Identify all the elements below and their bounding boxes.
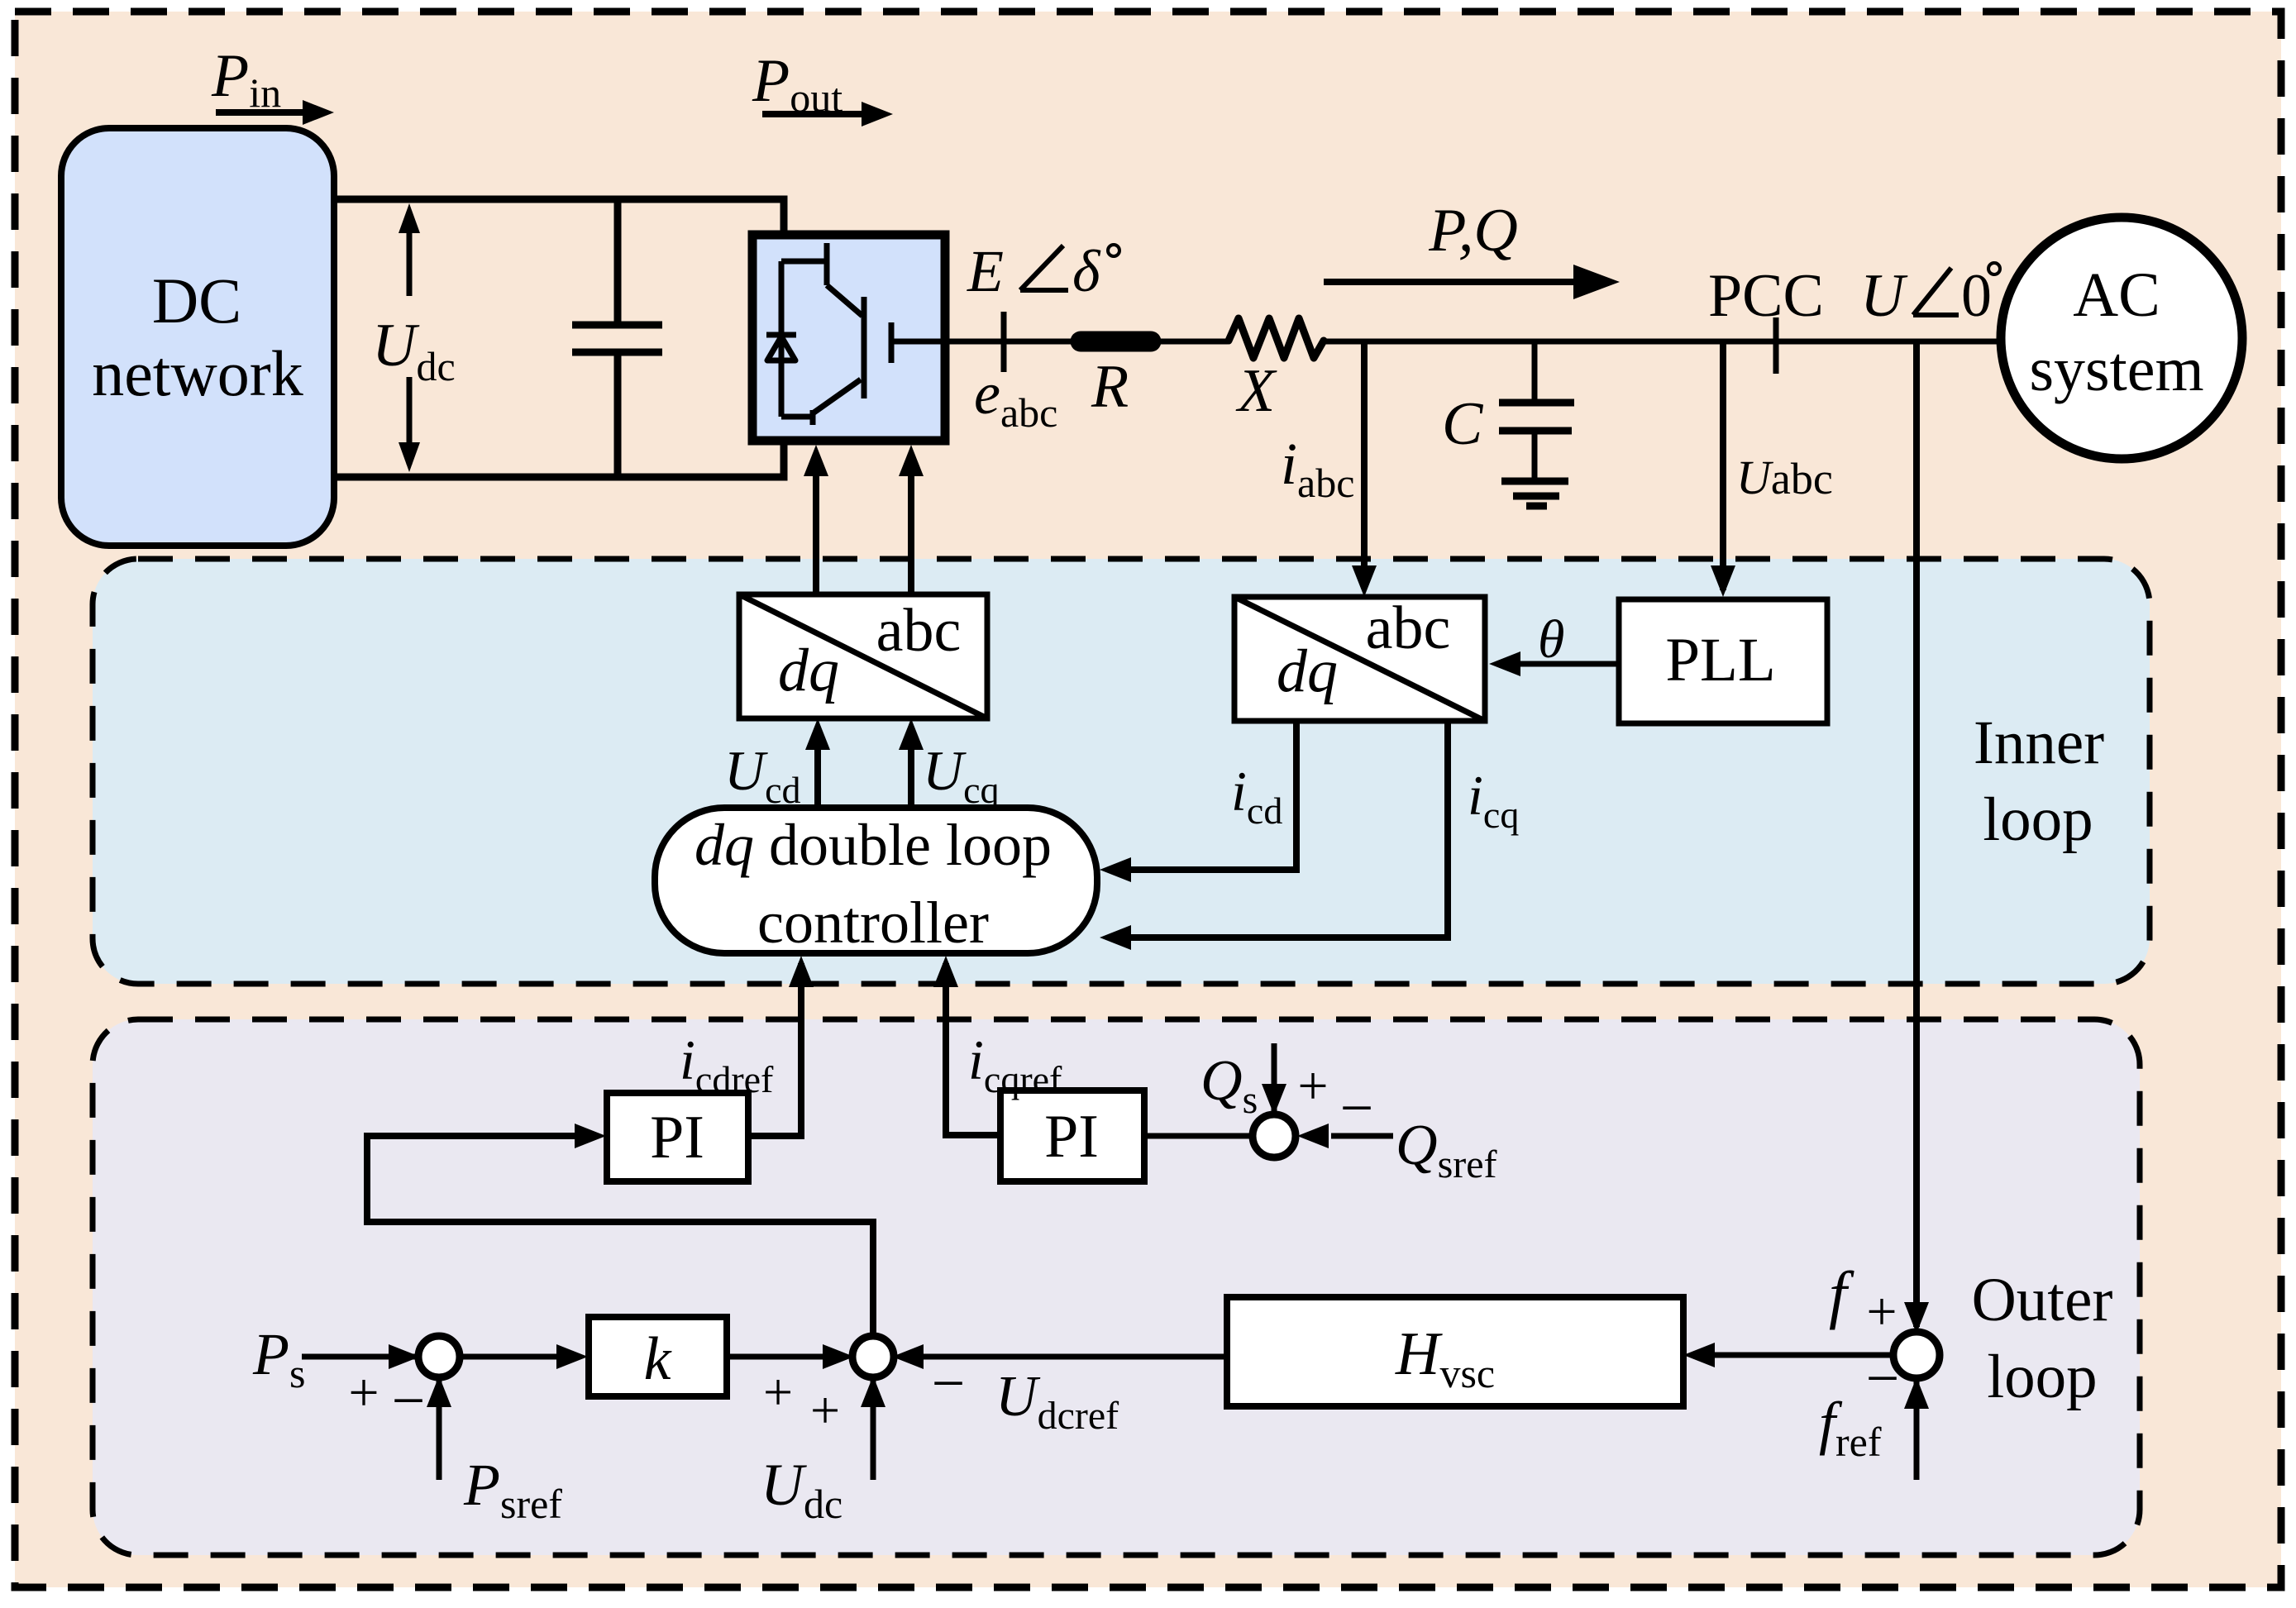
svg-text:PCC: PCC [1708, 262, 1824, 330]
svg-text:dq: dq [1277, 637, 1338, 705]
svg-text:θ: θ [1538, 609, 1564, 670]
svg-text:PI: PI [650, 1104, 704, 1171]
svg-text:AC: AC [2073, 260, 2160, 330]
svg-text:PI: PI [1044, 1103, 1099, 1171]
svg-text:Uabc: Uabc [1736, 451, 1833, 504]
svg-text:network: network [92, 337, 303, 409]
svg-text:C: C [1442, 390, 1484, 458]
svg-text:abc: abc [1366, 594, 1451, 662]
svg-text:P,Q: P,Q [1428, 197, 1518, 265]
svg-text:+: + [348, 1362, 379, 1423]
svg-text:R: R [1091, 353, 1129, 421]
svg-text:+: + [1866, 1281, 1897, 1342]
svg-text:−: − [932, 1350, 966, 1416]
svg-text:loop: loop [1987, 1343, 2097, 1411]
svg-text:dq: dq [778, 637, 839, 704]
svg-text:+: + [763, 1362, 793, 1421]
svg-text:−: − [1866, 1345, 1900, 1411]
svg-text:controller: controller [757, 890, 989, 956]
svg-text:PLL: PLL [1665, 626, 1775, 694]
svg-text:DC: DC [152, 265, 241, 336]
svg-text:U: U [1860, 262, 1908, 330]
svg-text:−: − [1340, 1075, 1374, 1141]
svg-text:system: system [2029, 335, 2203, 404]
svg-text:−: − [392, 1367, 426, 1434]
svg-text:0: 0 [1961, 262, 1992, 330]
svg-text:+: + [1297, 1056, 1328, 1116]
svg-text:abc: abc [876, 597, 962, 665]
svg-text:δ: δ [1072, 238, 1101, 304]
svg-text:dq double loop: dq double loop [695, 812, 1052, 878]
svg-text:loop: loop [1983, 785, 2093, 854]
svg-text:X: X [1235, 357, 1277, 425]
svg-text:E: E [967, 238, 1004, 304]
svg-text:Outer: Outer [1972, 1266, 2113, 1334]
svg-text:+: + [810, 1381, 840, 1439]
svg-text:k: k [644, 1325, 672, 1393]
svg-text:Inner: Inner [1974, 709, 2104, 777]
